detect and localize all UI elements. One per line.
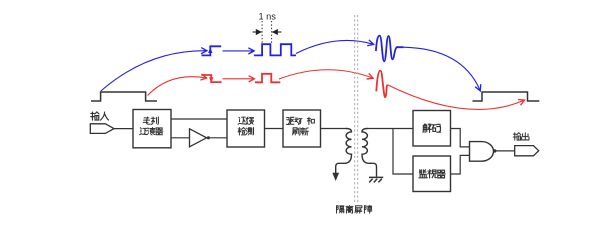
blue double pulse (1 ns pulses)	[254, 44, 296, 55]
wire driver to transformer	[321, 128, 348, 130]
svg-text:1 ns: 1 ns	[259, 12, 277, 22]
decoder box	[413, 111, 451, 147]
wire red curve: input falling edge to edge-detect pulse	[148, 77, 207, 96]
label 输入	[91, 112, 109, 120]
dimension arrows	[253, 31, 282, 33]
output pulse waveform	[473, 92, 540, 101]
blue rising-edge glyph	[202, 46, 222, 55]
blue long arrow	[223, 50, 254, 52]
label 隔离屏障	[337, 206, 372, 214]
transformer primary winding	[336, 129, 352, 174]
gate output dot	[493, 149, 496, 152]
wire red curve to output falling edge	[387, 85, 524, 110]
wire blue curve to output rising edge	[404, 47, 481, 90]
wire edge detect to driver	[265, 128, 284, 130]
edge detect box	[227, 110, 265, 147]
wire buffer to edge detect	[210, 137, 227, 139]
red falling-edge arrowhead	[209, 77, 213, 83]
blue rising-edge arrowhead	[208, 47, 212, 53]
transformer secondary winding	[362, 129, 377, 177]
red transient spike	[376, 71, 387, 98]
wire glitch filter top output to edge detect	[171, 118, 227, 120]
wire blue curve over barrier	[296, 40, 373, 53]
red long arrow	[223, 78, 254, 80]
primary ground arrow	[332, 173, 339, 181]
label 检测	[238, 128, 253, 135]
input terminal	[90, 124, 114, 134]
label 监视器	[419, 170, 445, 178]
output terminal	[515, 146, 539, 156]
input pulse waveform	[91, 92, 157, 101]
wire gate to output terminal	[497, 150, 515, 152]
label 输出	[513, 133, 529, 140]
label 过滤器	[140, 128, 163, 135]
wire red curve over barrier	[279, 70, 373, 79]
label 驱动 和	[287, 117, 315, 124]
red single pulse	[255, 74, 280, 83]
glitch filter box	[133, 110, 171, 148]
red falling-edge glyph	[202, 75, 222, 82]
label 解码	[423, 124, 441, 132]
dimension marker 1 ns dotted lines	[262, 21, 272, 43]
AND gate	[470, 142, 494, 162]
wire branch to monitor	[393, 129, 413, 175]
wire glitch filter bottom output to buffer	[171, 137, 190, 139]
label 毛刺	[143, 117, 158, 124]
buffer triangle	[190, 129, 207, 147]
wire decoder to AND gate	[451, 129, 470, 147]
isolation barrier dashed lines	[355, 15, 358, 203]
wire monitor to AND gate	[451, 155, 470, 174]
wire secondary to decoder	[366, 128, 413, 130]
inverter dot	[207, 136, 210, 139]
wire input to glitch filter	[114, 128, 133, 130]
wire blue curve: input rising edge to edge-detect pulse	[101, 51, 207, 91]
blue oscillation burst	[376, 36, 404, 62]
monitor box	[413, 156, 451, 192]
secondary chassis ground	[369, 177, 383, 182]
driver refresh box	[283, 110, 321, 147]
label 边缘	[238, 117, 253, 124]
label 刷新	[293, 128, 309, 135]
